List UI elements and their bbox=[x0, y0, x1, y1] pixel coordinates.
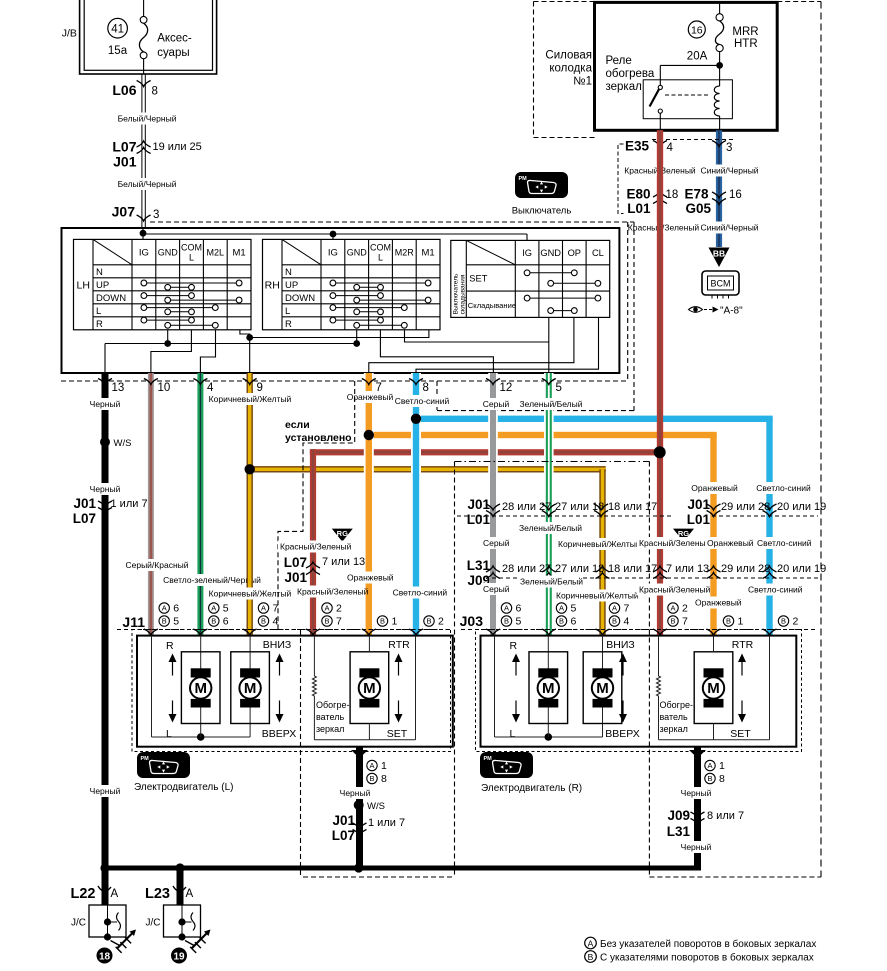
svg-text:3: 3 bbox=[153, 209, 159, 221]
svg-text:GND: GND bbox=[158, 248, 179, 258]
dashed pocket right of switch bbox=[633, 222, 635, 411]
svg-text:ВВЕРХ: ВВЕРХ bbox=[262, 728, 297, 740]
svg-text:20 или 19: 20 или 19 bbox=[777, 501, 826, 513]
svg-text:J/C: J/C bbox=[146, 918, 161, 929]
svg-text:5: 5 bbox=[571, 603, 577, 615]
node: L23 tap bbox=[175, 863, 184, 872]
svg-text:6: 6 bbox=[173, 603, 179, 615]
svg-text:M2L: M2L bbox=[207, 248, 225, 258]
svg-text:BCM: BCM bbox=[711, 279, 731, 289]
svg-text:W/S: W/S bbox=[367, 801, 385, 812]
svg-text:7: 7 bbox=[273, 603, 279, 615]
svg-text:Выключатель: Выключатель bbox=[512, 206, 572, 217]
dashed surround J03 bbox=[476, 630, 802, 752]
svg-text:2: 2 bbox=[682, 603, 688, 615]
svg-text:W/S: W/S bbox=[114, 438, 132, 449]
svg-text:4: 4 bbox=[624, 616, 630, 628]
wire: accessory feed (double line) from J/B to switch bbox=[141, 74, 143, 228]
svg-text:J03: J03 bbox=[460, 613, 484, 629]
svg-text:Синий/Черный: Синий/Черный bbox=[700, 166, 758, 176]
svg-text:M: M bbox=[244, 680, 257, 697]
svg-text:L06: L06 bbox=[112, 82, 136, 98]
svg-text:G05: G05 bbox=[686, 201, 712, 216]
wire RH COM-L to pin 12 bbox=[380, 330, 493, 374]
PM icon (motor L) bbox=[137, 752, 190, 778]
svg-text:M1: M1 bbox=[421, 248, 434, 259]
PM icon (motor R) bbox=[480, 752, 533, 778]
junction block J/B with fuse 41 15A (Аксессуары) bbox=[80, 0, 217, 74]
svg-text:J11: J11 bbox=[122, 614, 145, 630]
svg-text:Складывание: Складывание bbox=[468, 301, 516, 310]
svg-text:SET: SET bbox=[730, 728, 751, 740]
svg-text:COM: COM bbox=[181, 243, 202, 253]
svg-text:A: A bbox=[559, 604, 564, 613]
wire 10 Серый/Красный bbox=[148, 373, 154, 636]
svg-text:L07: L07 bbox=[73, 511, 96, 526]
svg-text:зеркал: зеркал bbox=[660, 724, 688, 734]
labels below row 2 bbox=[481, 583, 507, 595]
node: J11 return to bus bbox=[354, 863, 363, 872]
svg-text:Черный: Черный bbox=[90, 399, 121, 409]
svg-text:29 или 28: 29 или 28 bbox=[721, 563, 770, 575]
svg-text:L: L bbox=[285, 306, 290, 317]
svg-text:Красный/Зеленый: Красный/Зеленый bbox=[297, 587, 369, 597]
svg-text:L: L bbox=[96, 306, 101, 317]
svg-text:Красный/Зеленый: Красный/Зеленый bbox=[280, 542, 352, 552]
svg-text:27 или 18: 27 или 18 bbox=[555, 501, 604, 513]
svg-text:Белый/Черный: Белый/Черный bbox=[118, 114, 177, 124]
mirror heater relay box (Реле обогрева зеркал) bbox=[595, 2, 778, 130]
svg-text:обогрева: обогрева bbox=[606, 68, 655, 80]
svg-text:16: 16 bbox=[691, 25, 703, 37]
node: wire13 to bus bbox=[100, 863, 109, 872]
svg-text:Светло-синий: Светло-синий bbox=[395, 396, 450, 406]
svg-text:M: M bbox=[363, 680, 376, 697]
svg-text:18: 18 bbox=[99, 952, 111, 963]
svg-text:B: B bbox=[670, 617, 675, 626]
svg-text:2: 2 bbox=[793, 616, 799, 628]
svg-text:20A: 20A bbox=[687, 50, 708, 62]
svg-text:10: 10 bbox=[158, 382, 171, 394]
svg-text:RTR: RTR bbox=[732, 639, 754, 651]
svg-text:ВНИЗ: ВНИЗ bbox=[606, 639, 634, 651]
wire 8 Светло-синий bbox=[411, 373, 421, 636]
wire: Красный/Зеленый branch drop to J11 bbox=[310, 449, 316, 635]
wire: Красный/Зеленый main drop bbox=[655, 452, 665, 635]
svg-text:B: B bbox=[707, 774, 712, 783]
svg-text:DOWN: DOWN bbox=[285, 293, 315, 304]
svg-text:PM: PM bbox=[484, 756, 493, 762]
svg-text:N: N bbox=[96, 267, 103, 278]
svg-text:A: A bbox=[612, 604, 617, 613]
wire: right brown/yellow drop to J03 bbox=[599, 469, 605, 635]
svg-text:Черный: Черный bbox=[340, 788, 371, 798]
svg-text:B: B bbox=[781, 617, 786, 626]
svg-text:1: 1 bbox=[381, 760, 387, 772]
svg-text:Электродвигатель (L): Электродвигатель (L) bbox=[134, 782, 233, 793]
svg-text:№1: №1 bbox=[573, 76, 592, 88]
svg-text:B: B bbox=[426, 617, 431, 626]
svg-text:7 или 13: 7 или 13 bbox=[666, 563, 709, 575]
svg-text:если: если bbox=[285, 419, 310, 431]
svg-text:28 или 27: 28 или 27 bbox=[502, 501, 551, 513]
svg-text:Красный/Зеленый: Красный/Зеленый bbox=[639, 538, 711, 548]
svg-text:R: R bbox=[510, 640, 518, 652]
svg-text:L07: L07 bbox=[284, 555, 307, 570]
svg-text:Серый: Серый bbox=[483, 399, 510, 409]
svg-text:колодка: колодка bbox=[549, 63, 592, 75]
node W/S on wire 13 bbox=[100, 437, 110, 447]
svg-text:J07: J07 bbox=[112, 204, 136, 220]
svg-text:L07: L07 bbox=[112, 139, 136, 155]
svg-text:L31: L31 bbox=[667, 824, 691, 839]
dashed surround J11 bbox=[132, 630, 451, 752]
svg-text:18 или 17: 18 или 17 bbox=[608, 501, 657, 513]
svg-text:Серый/Красный: Серый/Красный bbox=[125, 560, 188, 570]
svg-text:UP: UP bbox=[96, 280, 109, 291]
wire 5 Зеленый/Белый bbox=[544, 373, 554, 636]
svg-text:Силовая: Силовая bbox=[545, 50, 592, 62]
legend note B bbox=[585, 951, 597, 963]
wire fold OP to pin 7 bbox=[369, 317, 574, 374]
svg-text:установлено: установлено bbox=[285, 432, 352, 444]
svg-text:зеркал: зеркал bbox=[316, 724, 344, 734]
svg-text:B: B bbox=[211, 617, 216, 626]
svg-text:Оранжевый: Оранжевый bbox=[691, 483, 738, 493]
RG arrow (right) bbox=[673, 529, 694, 542]
svg-text:B: B bbox=[726, 617, 731, 626]
wire: Красный/Зеленый branch to J11 bbox=[310, 449, 660, 455]
svg-text:"A-8": "A-8" bbox=[720, 306, 743, 317]
svg-text:M: M bbox=[194, 680, 207, 697]
svg-text:Черный: Черный bbox=[681, 788, 712, 798]
svg-text:J01: J01 bbox=[284, 570, 307, 585]
svg-text:4: 4 bbox=[273, 616, 279, 628]
svg-text:41: 41 bbox=[111, 24, 124, 36]
svg-text:Выключатель: Выключатель bbox=[452, 273, 459, 314]
svg-text:CL: CL bbox=[592, 248, 604, 258]
svg-text:Без указателей поворотов в бок: Без указателей поворотов в боковых зерка… bbox=[600, 938, 816, 950]
wire fold CL to pin 8 bbox=[416, 317, 599, 374]
wire: right orange drop to J03 bbox=[710, 435, 716, 636]
svg-text:R: R bbox=[285, 319, 292, 330]
svg-text:Светло-синий: Светло-синий bbox=[757, 538, 812, 548]
wire LH COM-L to pin 10 bbox=[151, 330, 192, 374]
svg-text:PM: PM bbox=[141, 756, 150, 762]
svg-text:M: M bbox=[707, 680, 720, 697]
wire 7 Оранжевый bbox=[364, 373, 374, 636]
svg-text:LH: LH bbox=[77, 280, 90, 292]
svg-text:A: A bbox=[670, 604, 675, 613]
power block dashed box (Силовая колодка №1) bbox=[534, 1, 595, 3]
fuse symbol F41 bbox=[143, 0, 145, 17]
GND bus inside switch bbox=[105, 343, 357, 345]
svg-text:4: 4 bbox=[667, 142, 674, 154]
svg-text:28 или 27: 28 или 27 bbox=[502, 563, 551, 575]
svg-text:Серый: Серый bbox=[483, 538, 510, 548]
node: fuse output junction bbox=[716, 62, 723, 69]
svg-text:Оранжевый: Оранжевый bbox=[695, 598, 742, 608]
svg-text:COM: COM bbox=[370, 243, 391, 253]
svg-text:B: B bbox=[324, 617, 329, 626]
svg-text:L31: L31 bbox=[467, 558, 491, 573]
svg-text:A: A bbox=[369, 761, 374, 770]
svg-text:L: L bbox=[189, 253, 194, 263]
svg-text:A: A bbox=[162, 604, 167, 613]
dashed box (right section) bbox=[454, 462, 456, 878]
svg-text:L22: L22 bbox=[71, 886, 96, 902]
svg-text:B: B bbox=[380, 617, 385, 626]
see A-8 reference with eye symbol bbox=[689, 307, 703, 313]
svg-text:L: L bbox=[378, 253, 383, 263]
svg-text:E35: E35 bbox=[625, 139, 650, 154]
RG arrow (left) bbox=[332, 529, 353, 542]
svg-text:MRR: MRR bbox=[732, 26, 758, 38]
svg-text:Светло-синий: Светло-синий bbox=[748, 585, 803, 595]
node: orange branch bbox=[369, 432, 717, 438]
svg-text:6: 6 bbox=[571, 616, 577, 628]
svg-text:С указателями поворотов в боко: С указателями поворотов в боковых зеркал… bbox=[600, 952, 814, 964]
svg-text:Коричневый/Желтый: Коричневый/Желтый bbox=[209, 394, 292, 404]
svg-text:A: A bbox=[111, 888, 119, 900]
legend note A bbox=[585, 937, 597, 949]
svg-text:IG: IG bbox=[328, 248, 338, 259]
page-right dashed border bbox=[820, 2, 822, 878]
svg-text:Черный: Черный bbox=[681, 842, 712, 852]
relay K1 contact and coil bbox=[643, 80, 732, 119]
svg-text:29 или 28: 29 или 28 bbox=[721, 501, 770, 513]
junction connector J/C (right) bbox=[164, 905, 201, 937]
svg-text:B: B bbox=[588, 952, 594, 962]
labels above J01/L01 row bbox=[693, 482, 737, 494]
ground G19 bbox=[185, 941, 195, 947]
svg-text:Светло-зеленый/Черный: Светло-зеленый/Черный bbox=[163, 575, 261, 585]
svg-text:8: 8 bbox=[381, 773, 387, 785]
svg-text:19 или 25: 19 или 25 bbox=[153, 141, 202, 153]
svg-text:RH: RH bbox=[265, 280, 280, 292]
svg-text:OP: OP bbox=[568, 248, 581, 258]
svg-text:Белый/Черный: Белый/Черный bbox=[118, 179, 177, 189]
svg-text:R: R bbox=[166, 640, 174, 652]
svg-text:зеркал: зеркал bbox=[606, 81, 642, 93]
svg-text:5: 5 bbox=[516, 616, 522, 628]
svg-text:RG: RG bbox=[337, 529, 348, 538]
ground G18 bbox=[111, 941, 121, 947]
electric motor unit R (Электродвигатель R) bbox=[481, 636, 797, 747]
svg-text:1: 1 bbox=[392, 616, 398, 628]
wire: Синий/Черный from relay coil (E35 pin 3) bbox=[716, 130, 722, 247]
svg-text:HTR: HTR bbox=[734, 38, 758, 50]
svg-text:Коричневый/Желтый: Коричневый/Желтый bbox=[209, 589, 292, 599]
wire: black return from J11 bbox=[356, 747, 363, 866]
wire 13 Черный bbox=[102, 373, 109, 866]
svg-text:B: B bbox=[559, 617, 564, 626]
svg-text:ватель: ватель bbox=[660, 712, 688, 722]
svg-text:2: 2 bbox=[336, 603, 342, 615]
svg-text:M2R: M2R bbox=[395, 248, 415, 258]
svg-text:L23: L23 bbox=[145, 886, 170, 902]
svg-text:L01: L01 bbox=[467, 512, 491, 527]
mirror switch box (Выключатель) bbox=[62, 228, 620, 373]
svg-text:A: A bbox=[211, 604, 216, 613]
svg-text:7: 7 bbox=[682, 616, 688, 628]
svg-text:Светло-синий: Светло-синий bbox=[393, 588, 448, 598]
svg-text:J/C: J/C bbox=[71, 918, 86, 929]
svg-text:B: B bbox=[612, 617, 617, 626]
svg-text:Черный: Черный bbox=[90, 786, 121, 796]
svg-text:J01: J01 bbox=[73, 496, 96, 511]
folding switch table bbox=[451, 240, 610, 317]
svg-text:8: 8 bbox=[152, 86, 158, 98]
svg-text:B: B bbox=[504, 617, 509, 626]
svg-text:Зеленый/Белый: Зеленый/Белый bbox=[519, 399, 582, 409]
svg-text:6: 6 bbox=[516, 603, 522, 615]
svg-text:SET: SET bbox=[469, 273, 487, 283]
svg-text:19: 19 bbox=[173, 952, 185, 963]
svg-text:RG: RG bbox=[678, 529, 689, 538]
svg-text:Зеленый/Белый: Зеленый/Белый bbox=[519, 523, 582, 533]
wire 9 Коричневый/Желтый bbox=[247, 373, 253, 636]
svg-text:A: A bbox=[186, 888, 194, 900]
svg-text:A: A bbox=[324, 604, 329, 613]
svg-text:складывания: складывания bbox=[459, 274, 466, 314]
BCM module bbox=[702, 271, 739, 295]
wire colour labels between rows bbox=[517, 522, 578, 534]
svg-text:E80: E80 bbox=[626, 187, 650, 202]
svg-text:A: A bbox=[504, 604, 509, 613]
wire: L22 drop bbox=[102, 871, 109, 906]
wire: L23 drop bbox=[177, 871, 184, 906]
svg-text:15a: 15a bbox=[108, 45, 128, 57]
mirror switch dashed box bbox=[150, 221, 634, 223]
svg-text:Синий/Черный: Синий/Черный bbox=[700, 223, 758, 233]
wire: black return from J03 bbox=[694, 747, 701, 871]
svg-text:L: L bbox=[510, 728, 516, 740]
junction connector J/C (left) bbox=[89, 905, 126, 937]
svg-text:E78: E78 bbox=[685, 187, 710, 202]
svg-text:5: 5 bbox=[223, 603, 229, 615]
svg-text:A: A bbox=[707, 761, 712, 770]
wire LH M2L to pin 4 bbox=[200, 330, 215, 374]
svg-text:1: 1 bbox=[719, 760, 725, 772]
wire: Красный/Зеленый from relay contact (E35 pin 4) bbox=[657, 130, 663, 452]
svg-text:B: B bbox=[162, 617, 167, 626]
IG bus inside switch bbox=[143, 233, 527, 235]
svg-text:Оранжевый: Оранжевый bbox=[707, 538, 754, 548]
svg-text:Серый: Серый bbox=[483, 584, 510, 594]
wire: ground bus (thick black) bbox=[102, 866, 701, 871]
svg-text:J01: J01 bbox=[113, 154, 137, 170]
svg-text:DOWN: DOWN bbox=[96, 293, 126, 304]
svg-text:8: 8 bbox=[423, 382, 429, 394]
connector E35 bracket bbox=[618, 144, 624, 214]
svg-text:2: 2 bbox=[438, 616, 444, 628]
svg-text:Обогре-: Обогре- bbox=[660, 700, 693, 710]
svg-text:7: 7 bbox=[624, 603, 630, 615]
BB arrow to BCM bbox=[709, 248, 730, 268]
svg-text:3: 3 bbox=[726, 142, 732, 154]
svg-text:GND: GND bbox=[540, 248, 561, 258]
если установлено dashed box (left) bbox=[278, 381, 355, 629]
svg-text:L: L bbox=[166, 728, 172, 740]
svg-text:IG: IG bbox=[522, 248, 532, 258]
switch LH table bbox=[74, 239, 252, 329]
svg-text:Оранжевый: Оранжевый bbox=[347, 573, 394, 583]
svg-text:L01: L01 bbox=[627, 201, 651, 216]
electric motor unit L (Электродвигатель L) bbox=[137, 636, 453, 747]
svg-text:Аксес-: Аксес- bbox=[157, 33, 192, 45]
node: light-blue branch bbox=[416, 416, 773, 422]
svg-text:Коричневый/Желтый: Коричневый/Желтый bbox=[558, 539, 641, 549]
svg-text:J01: J01 bbox=[332, 813, 355, 828]
svg-text:20 или 19: 20 или 19 bbox=[777, 563, 826, 575]
svg-text:B: B bbox=[369, 774, 374, 783]
svg-text:Зеленый/Белый: Зеленый/Белый bbox=[520, 577, 583, 587]
svg-text:16: 16 bbox=[729, 189, 742, 201]
wire: right light-blue drop to J03 bbox=[766, 419, 772, 636]
svg-text:Оранжевый: Оранжевый bbox=[347, 392, 394, 402]
svg-text:7: 7 bbox=[336, 616, 342, 628]
svg-text:Черный: Черный bbox=[90, 484, 121, 494]
svg-text:9: 9 bbox=[257, 382, 263, 394]
svg-text:UP: UP bbox=[285, 280, 298, 291]
switch RH table bbox=[263, 239, 441, 329]
svg-text:B: B bbox=[261, 617, 266, 626]
node: brown/yellow branch bbox=[250, 466, 606, 472]
svg-text:RTR: RTR bbox=[388, 639, 410, 651]
svg-text:1: 1 bbox=[738, 616, 744, 628]
wire 4 Светло-зеленый/Черный bbox=[197, 373, 203, 636]
fuse 16 MRR HTR 20A bbox=[719, 2, 721, 13]
svg-text:Обогре-: Обогре- bbox=[316, 700, 349, 710]
svg-text:L01: L01 bbox=[687, 512, 711, 527]
svg-text:5: 5 bbox=[173, 616, 179, 628]
node W/S on J11 return bbox=[354, 800, 364, 810]
svg-text:IG: IG bbox=[139, 248, 149, 259]
svg-text:1 или 7: 1 или 7 bbox=[111, 498, 148, 510]
svg-text:ВНИЗ: ВНИЗ bbox=[263, 639, 291, 651]
svg-text:M1: M1 bbox=[232, 248, 245, 259]
svg-text:Коричневый/Желтый: Коричневый/Желтый bbox=[556, 591, 639, 601]
svg-text:A: A bbox=[261, 604, 266, 613]
svg-text:BB: BB bbox=[713, 249, 725, 259]
svg-text:R: R bbox=[96, 319, 103, 330]
svg-text:12: 12 bbox=[500, 382, 513, 394]
wire 12 Серый bbox=[488, 373, 498, 636]
svg-text:18 или 17: 18 или 17 bbox=[608, 563, 657, 575]
svg-text:8: 8 bbox=[719, 773, 725, 785]
svg-text:18: 18 bbox=[666, 189, 679, 201]
svg-text:1 или 7: 1 или 7 bbox=[368, 817, 405, 829]
svg-text:M: M bbox=[542, 680, 555, 697]
svg-text:4: 4 bbox=[207, 382, 214, 394]
svg-text:J09: J09 bbox=[667, 808, 690, 823]
wire M1 bus to pin 9 bbox=[240, 330, 250, 374]
svg-text:6: 6 bbox=[223, 616, 229, 628]
svg-text:GND: GND bbox=[347, 248, 368, 258]
svg-text:N: N bbox=[285, 267, 292, 278]
wire RH M2R to pin 5 bbox=[405, 330, 549, 342]
svg-text:J/B: J/B bbox=[62, 28, 77, 40]
svg-text:L07: L07 bbox=[332, 828, 355, 843]
svg-text:ватель: ватель bbox=[316, 712, 344, 722]
svg-text:7 или 13: 7 или 13 bbox=[322, 556, 365, 568]
svg-text:Реле: Реле bbox=[606, 55, 632, 67]
svg-text:Электродвигатель (R): Электродвигатель (R) bbox=[481, 783, 582, 794]
svg-text:8 или 7: 8 или 7 bbox=[707, 810, 744, 822]
svg-text:27 или 18: 27 или 18 bbox=[555, 563, 604, 575]
svg-text:Красный/Зеленый: Красный/Зеленый bbox=[628, 223, 700, 233]
